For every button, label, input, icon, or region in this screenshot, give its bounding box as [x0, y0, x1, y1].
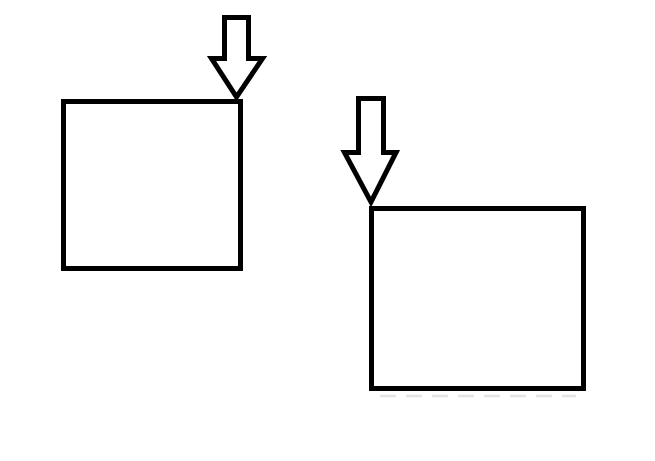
block arrow 1 (down arrow pointing at top-right corner of square 1) — [212, 18, 263, 98]
block arrow 2 (down arrow pointing at top-left corner of square 2) — [345, 99, 397, 203]
square 1 — [64, 102, 241, 269]
faint compression-artifact dashes under square 2 — [380, 395, 576, 398]
square 2 (rectangle) — [372, 209, 584, 389]
